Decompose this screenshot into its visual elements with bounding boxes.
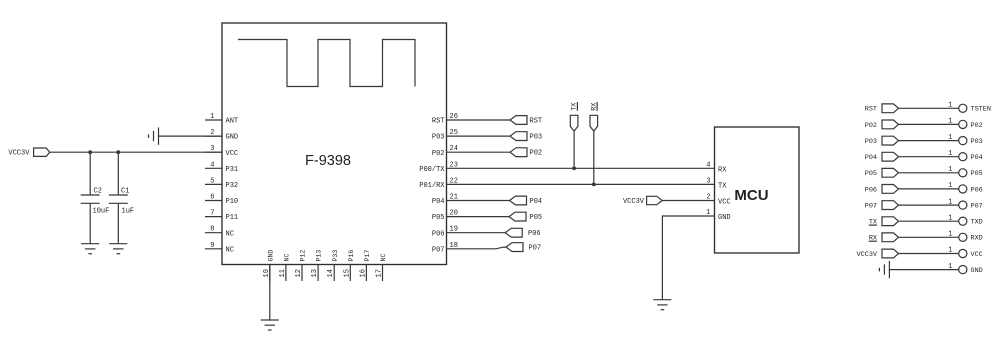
ground below C2 — [81, 243, 99, 245]
svg-text:P05: P05 — [971, 170, 983, 178]
svg-text:VCC: VCC — [226, 150, 239, 158]
svg-text:VCC: VCC — [971, 251, 983, 259]
svg-text:GND: GND — [267, 250, 274, 262]
svg-text:P13: P13 — [316, 250, 323, 262]
svg-text:4: 4 — [706, 162, 710, 170]
junction TX on net P00/TX — [572, 166, 576, 170]
U1 pin 17 NC — [382, 265, 384, 282]
U1 pin 11 NC — [285, 265, 287, 282]
U1 pin 4 P31 — [205, 167, 222, 169]
svg-text:P05: P05 — [530, 214, 543, 222]
wire U1 pin 10 to ground — [269, 265, 271, 321]
svg-text:P02: P02 — [530, 150, 543, 158]
svg-text:NC: NC — [226, 246, 234, 254]
U1 pin 24 P02 — [447, 151, 511, 153]
svg-text:21: 21 — [450, 194, 458, 202]
svg-text:RST: RST — [865, 106, 877, 114]
svg-text:P17: P17 — [364, 250, 371, 262]
ground symbol at U1 pin 2 (rotated left) — [158, 127, 160, 144]
svg-text:RX: RX — [718, 166, 727, 174]
svg-text:26: 26 — [450, 113, 458, 121]
svg-text:RST: RST — [530, 117, 543, 125]
svg-text:GND: GND — [718, 214, 731, 222]
connector row GND (pin 1) — [888, 261, 890, 278]
net tag P03 at U1 pin 25 — [510, 132, 527, 141]
ground below MCU — [653, 299, 671, 301]
svg-text:ANT: ANT — [226, 118, 239, 126]
svg-text:P01/RX: P01/RX — [419, 182, 445, 190]
wire net P01/RX : U1 pin 22 to MCU pin 3 — [447, 183, 715, 185]
svg-text:P03: P03 — [530, 134, 543, 142]
svg-text:1: 1 — [948, 166, 952, 174]
net tag P06 at U1 pin 19 — [505, 228, 522, 237]
U1 pin 21 P04 — [447, 200, 511, 202]
junction at C2 — [88, 150, 92, 154]
svg-text:P31: P31 — [226, 166, 239, 174]
svg-text:1: 1 — [210, 113, 214, 121]
U1 pin 10 GND — [269, 265, 271, 282]
svg-text:P04: P04 — [865, 154, 877, 162]
IC U1 F-9398 body — [222, 23, 447, 265]
svg-text:TSTEN: TSTEN — [971, 106, 991, 114]
wire MCU pin 1 GND to ground — [662, 216, 714, 300]
svg-text:P02: P02 — [971, 122, 983, 130]
svg-text:C2: C2 — [94, 188, 102, 196]
svg-text:F-9398: F-9398 — [305, 153, 351, 169]
svg-text:P32: P32 — [226, 182, 239, 190]
wire net P00/TX : U1 pin 23 to MCU pin 4 — [447, 167, 715, 169]
svg-text:18: 18 — [450, 242, 458, 250]
MCU U2 body — [715, 127, 800, 253]
svg-text:24: 24 — [450, 145, 458, 153]
svg-text:1: 1 — [948, 182, 952, 190]
svg-text:P02: P02 — [865, 122, 877, 130]
svg-text:P06: P06 — [432, 230, 445, 238]
svg-text:P07: P07 — [971, 203, 983, 211]
svg-text:20: 20 — [450, 210, 458, 218]
svg-text:6: 6 — [210, 194, 214, 202]
svg-text:3: 3 — [706, 178, 710, 186]
U1 pin 9 NC — [205, 248, 222, 250]
svg-text:NC: NC — [284, 254, 291, 262]
svg-text:P10: P10 — [226, 198, 239, 206]
U1 pin 25 P03 — [447, 135, 511, 137]
net tag P07 at U1 pin 18 — [506, 243, 523, 252]
U1 pin 12 P12 — [301, 265, 303, 282]
ground below U1 pin 10 — [261, 319, 279, 321]
svg-text:P05: P05 — [865, 170, 877, 178]
svg-text:VCC3V: VCC3V — [8, 150, 30, 158]
svg-text:P11: P11 — [226, 214, 239, 222]
svg-text:P07: P07 — [529, 245, 542, 253]
power flag VCC3V at MCU pin 2 — [647, 196, 663, 204]
svg-text:P00/TX: P00/TX — [419, 166, 445, 174]
junction RX on net P01/RX — [592, 183, 596, 187]
U1 pin 2 GND — [205, 135, 222, 137]
svg-text:NC: NC — [226, 230, 234, 238]
svg-text:11: 11 — [279, 269, 287, 277]
svg-text:RXD: RXD — [971, 235, 983, 243]
U1 pin 14 P33 — [333, 265, 335, 282]
svg-text:P03: P03 — [432, 134, 445, 142]
svg-text:P04: P04 — [432, 198, 445, 206]
U1 pin 16 P17 — [365, 265, 367, 282]
svg-text:P03: P03 — [865, 138, 877, 146]
U1 pin 1 ANT — [205, 119, 222, 121]
junction at C1 — [116, 150, 120, 154]
U1 pin 18 P07 — [447, 247, 507, 249]
svg-text:9: 9 — [210, 242, 214, 250]
U1 pin 8 NC — [205, 232, 222, 234]
svg-text:P06: P06 — [528, 230, 541, 238]
ground below C1 — [109, 243, 127, 245]
wire U1 pin 2 GND to ground — [159, 135, 223, 137]
U1 pin 6 P10 — [205, 200, 222, 202]
svg-text:13: 13 — [311, 269, 319, 277]
svg-text:P03: P03 — [971, 138, 983, 146]
svg-text:C1: C1 — [121, 188, 129, 196]
net label TX (vertical tag) — [570, 115, 578, 131]
svg-text:TXD: TXD — [971, 219, 983, 227]
svg-text:P04: P04 — [971, 154, 983, 162]
svg-text:VCC3V: VCC3V — [857, 251, 878, 259]
svg-text:1: 1 — [948, 118, 952, 126]
svg-text:14: 14 — [327, 269, 335, 277]
capacitor C1 1uF — [117, 152, 119, 195]
net label RX (vertical tag) — [590, 115, 598, 131]
svg-text:P16: P16 — [348, 250, 355, 262]
svg-text:P33: P33 — [332, 250, 339, 262]
svg-text:1: 1 — [948, 150, 952, 158]
svg-text:1: 1 — [948, 263, 952, 271]
U1 pin 3 VCC — [205, 151, 222, 153]
capacitor C2 10uF — [89, 152, 91, 195]
svg-text:RST: RST — [432, 118, 445, 126]
svg-text:MCU: MCU — [734, 187, 768, 204]
power flag VCC3V (left) — [34, 148, 50, 156]
svg-text:1: 1 — [948, 247, 952, 255]
svg-text:1: 1 — [948, 198, 952, 206]
svg-text:12: 12 — [295, 269, 303, 277]
svg-text:GND: GND — [226, 134, 239, 142]
svg-text:P06: P06 — [865, 186, 877, 194]
svg-text:GND: GND — [971, 267, 983, 275]
svg-text:16: 16 — [359, 269, 367, 277]
svg-text:25: 25 — [450, 129, 458, 137]
svg-text:5: 5 — [210, 177, 214, 185]
svg-text:17: 17 — [376, 269, 384, 277]
svg-text:P06: P06 — [971, 186, 983, 194]
svg-text:4: 4 — [210, 161, 214, 169]
svg-text:VCC: VCC — [718, 199, 731, 207]
net tag P04 at U1 pin 21 — [510, 196, 527, 205]
svg-text:P05: P05 — [432, 214, 445, 222]
U1 pin 20 P05 — [447, 216, 511, 218]
U1 pin 5 P32 — [205, 183, 222, 185]
svg-text:1: 1 — [948, 214, 952, 222]
svg-text:8: 8 — [210, 226, 214, 234]
U1 pin 13 P13 — [317, 265, 319, 282]
svg-text:VCC3V: VCC3V — [623, 198, 645, 206]
svg-text:10uF: 10uF — [93, 207, 110, 215]
svg-text:NC: NC — [380, 254, 387, 262]
svg-text:TX: TX — [718, 182, 727, 190]
svg-text:15: 15 — [343, 269, 351, 277]
U1 pin 15 P16 — [349, 265, 351, 282]
svg-text:1: 1 — [948, 134, 952, 142]
svg-text:P12: P12 — [300, 250, 307, 262]
svg-text:1uF: 1uF — [122, 207, 135, 215]
U1 pin 26 RST — [447, 119, 511, 121]
svg-text:P07: P07 — [432, 246, 445, 254]
U1 pin 7 P11 — [205, 216, 222, 218]
svg-text:1: 1 — [948, 102, 952, 110]
U1 pin 19 P06 — [447, 232, 506, 234]
wire VCC3V to MCU pin 2 — [662, 200, 714, 202]
net tag P05 at U1 pin 20 — [509, 212, 526, 221]
svg-text:P04: P04 — [530, 198, 543, 206]
svg-text:1: 1 — [948, 231, 952, 239]
svg-text:19: 19 — [450, 226, 458, 234]
antenna meander trace inside U1 — [238, 40, 415, 87]
net tag P02 at U1 pin 24 — [510, 148, 527, 157]
svg-text:7: 7 — [210, 210, 214, 218]
svg-text:P07: P07 — [865, 203, 877, 211]
net tag RST at U1 pin 26 — [510, 116, 527, 125]
wire VCC3V rail to U1 pin 3 — [50, 151, 222, 153]
svg-text:P02: P02 — [432, 150, 445, 158]
